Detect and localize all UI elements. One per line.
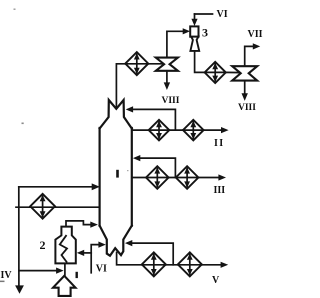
svg-text:VII: VII <box>248 29 263 40</box>
svg-text:2: 2 <box>40 238 46 252</box>
svg-text:VIII: VIII <box>238 103 256 113</box>
svg-text:IV: IV <box>1 270 13 281</box>
svg-text:II: II <box>214 138 225 149</box>
svg-text:III: III <box>214 185 226 196</box>
svg-text:3: 3 <box>202 25 208 39</box>
svg-text:VI: VI <box>217 9 228 20</box>
svg-text:V: V <box>212 275 220 286</box>
svg-text:VI: VI <box>96 263 107 274</box>
svg-text:VIII: VIII <box>162 96 180 106</box>
